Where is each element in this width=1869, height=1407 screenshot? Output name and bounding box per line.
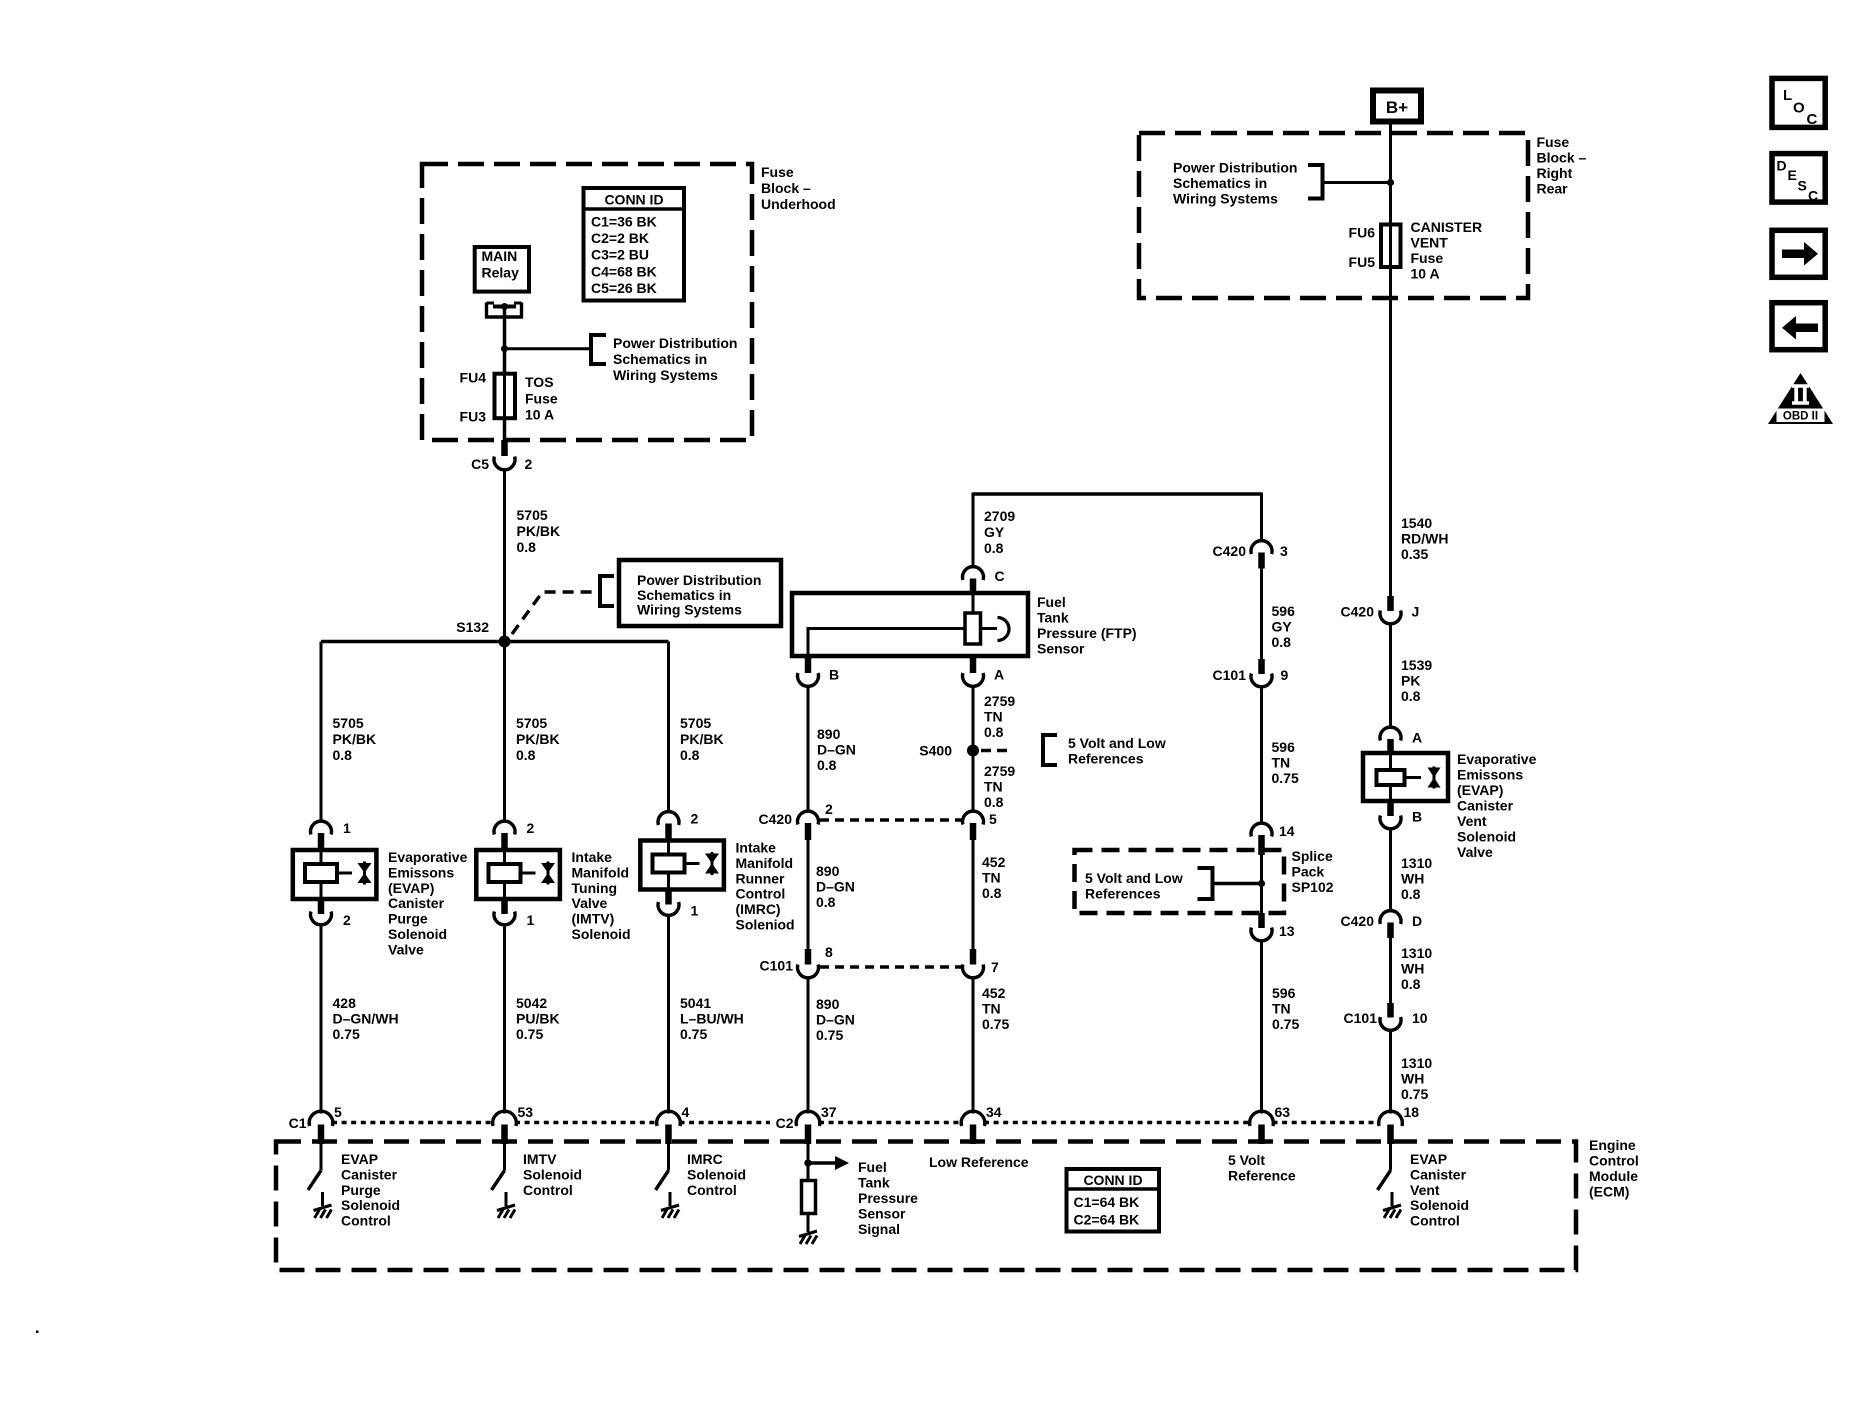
splice S132 junction dot bbox=[499, 636, 511, 648]
svg-text:FU4: FU4 bbox=[460, 370, 487, 386]
svg-text:(ECM): (ECM) bbox=[1589, 1184, 1629, 1200]
connector C5 pin 2 bbox=[501, 440, 508, 456]
svg-text:4: 4 bbox=[682, 1104, 690, 1120]
svg-text:2759: 2759 bbox=[984, 763, 1015, 779]
bracket for power distribution box (S132) bbox=[600, 576, 614, 606]
connector pin 13 (splice pack) bbox=[1258, 913, 1265, 928]
fuse block - underhood dashed enclosure bbox=[422, 164, 752, 440]
svg-text:Schematics in: Schematics in bbox=[637, 587, 731, 603]
svg-text:Solenoid: Solenoid bbox=[1410, 1197, 1469, 1213]
svg-text:890: 890 bbox=[817, 726, 841, 742]
solenoid L1 EVAP canister purge valve symbol bbox=[363, 862, 366, 885]
svg-text:Fuse: Fuse bbox=[1411, 250, 1444, 266]
svg-text:GY: GY bbox=[984, 524, 1005, 540]
svg-text:0.8: 0.8 bbox=[333, 747, 353, 763]
ground (EVAP purge control) bbox=[314, 1205, 332, 1211]
icon forward arrow button bbox=[1772, 230, 1825, 277]
svg-text:Evaporative: Evaporative bbox=[388, 849, 468, 865]
connector pin A of FTP sensor bbox=[970, 656, 977, 673]
svg-text:D–GN: D–GN bbox=[816, 1012, 855, 1028]
svg-text:C1=64 BK: C1=64 BK bbox=[1074, 1194, 1140, 1210]
svg-text:C2=64 BK: C2=64 BK bbox=[1074, 1212, 1140, 1228]
connector pin 1 at solenoid L2 IMTV bottom bbox=[501, 899, 508, 914]
svg-text:(EVAP): (EVAP) bbox=[388, 880, 434, 896]
svg-text:C4=68 BK: C4=68 BK bbox=[591, 263, 657, 279]
svg-text:Manifold: Manifold bbox=[736, 855, 794, 871]
ECM FTP signal input network bbox=[807, 1144, 810, 1181]
svg-text:1539: 1539 bbox=[1401, 657, 1432, 673]
wire S132 to solenoid L1 EVAP canister purge bbox=[320, 642, 323, 823]
svg-text:Tank: Tank bbox=[1037, 610, 1069, 626]
dashed leader from S400 bbox=[981, 749, 1010, 752]
connector pin 2 at solenoid L3 IMRC top bbox=[658, 812, 679, 825]
splice S132 bus wire bbox=[321, 640, 669, 644]
svg-text:Valve: Valve bbox=[388, 941, 424, 957]
ground (EVAP vent control) bbox=[1383, 1205, 1401, 1211]
svg-text:Power Distribution: Power Distribution bbox=[1173, 160, 1297, 176]
wire C101-7 to ECM pin 34 bbox=[972, 977, 975, 1114]
svg-text:2: 2 bbox=[527, 820, 535, 836]
svg-text:Pressure: Pressure bbox=[858, 1190, 918, 1206]
ECM connector pin 63 bbox=[1250, 1111, 1274, 1126]
svg-text:0.8: 0.8 bbox=[1401, 688, 1421, 704]
fuel tank pressure sensor box bbox=[792, 593, 1028, 656]
svg-text:C3=2 BU: C3=2 BU bbox=[591, 247, 649, 263]
connector C420 pin 2 bbox=[798, 811, 819, 824]
svg-text:1310: 1310 bbox=[1401, 945, 1432, 961]
connector pin 1 at solenoid L3 IMRC bottom bbox=[665, 890, 672, 905]
icon DESC button bbox=[1772, 154, 1825, 203]
svg-text:Evaporative: Evaporative bbox=[1457, 751, 1537, 767]
svg-text:Intake: Intake bbox=[572, 849, 613, 865]
SP102 connection with junction dot bbox=[1213, 882, 1262, 885]
svg-text:13: 13 bbox=[1279, 923, 1295, 939]
svg-text:WH: WH bbox=[1401, 961, 1424, 977]
svg-text:C2: C2 bbox=[776, 1115, 794, 1131]
svg-text:TOS: TOS bbox=[525, 374, 554, 390]
svg-text:C101: C101 bbox=[1213, 667, 1247, 683]
connector pin B of FTP sensor bbox=[805, 656, 812, 673]
svg-text:5 Volt: 5 Volt bbox=[1228, 1152, 1265, 1168]
wire C420-5 to C101-7 bbox=[972, 840, 975, 949]
wire 596 TN to splice pack bbox=[1260, 686, 1263, 824]
wire 890 D-GN from B bbox=[807, 686, 810, 813]
svg-text:2: 2 bbox=[525, 456, 533, 472]
svg-text:5705: 5705 bbox=[333, 715, 364, 731]
FTP potentiometer bbox=[965, 613, 981, 644]
solenoid L3 IMRC box bbox=[640, 841, 724, 890]
ground (FTP signal) bbox=[799, 1231, 817, 1237]
OBD II label plate bbox=[1777, 409, 1825, 423]
svg-text:0.75: 0.75 bbox=[1401, 1086, 1428, 1102]
svg-text:Emissons: Emissons bbox=[1457, 767, 1523, 783]
vent solenoid valve symbol bbox=[1433, 767, 1436, 789]
svg-text:IMRC: IMRC bbox=[687, 1151, 723, 1167]
solenoid L1 EVAP canister purge coil bbox=[305, 864, 337, 882]
svg-text:C420: C420 bbox=[1213, 543, 1247, 559]
svg-text:14: 14 bbox=[1279, 823, 1295, 839]
OBD II pillar glyph bbox=[1792, 385, 1809, 405]
svg-text:37: 37 bbox=[821, 1104, 837, 1120]
svg-text:C5=26 BK: C5=26 BK bbox=[591, 280, 657, 296]
ECM connector pin 4 bbox=[657, 1111, 681, 1126]
svg-text:CONN ID: CONN ID bbox=[1083, 1172, 1142, 1188]
ECM driver switch (IMRC control) bbox=[667, 1144, 670, 1171]
svg-text:L: L bbox=[1783, 87, 1792, 104]
svg-text:PU/BK: PU/BK bbox=[516, 1011, 560, 1027]
svg-text:Power Distribution: Power Distribution bbox=[637, 572, 761, 588]
svg-text:0.8: 0.8 bbox=[517, 539, 537, 555]
relay K: MAIN Relay box bbox=[475, 247, 529, 292]
svg-text:8: 8 bbox=[825, 944, 833, 960]
svg-text:C1: C1 bbox=[289, 1115, 307, 1131]
MAIN relay contact symbol bbox=[487, 303, 522, 318]
svg-text:Vent: Vent bbox=[1457, 813, 1487, 829]
svg-text:WH: WH bbox=[1401, 1071, 1424, 1087]
svg-text:428: 428 bbox=[333, 995, 357, 1011]
svg-text:0.35: 0.35 bbox=[1401, 546, 1428, 562]
svg-text:Manifold: Manifold bbox=[572, 864, 630, 880]
svg-text:2: 2 bbox=[691, 811, 699, 827]
ECM connector pin 18 bbox=[1379, 1111, 1403, 1126]
svg-text:596: 596 bbox=[1272, 603, 1296, 619]
svg-text:MAIN: MAIN bbox=[482, 248, 518, 264]
bracket for power distribution note (underhood) bbox=[591, 335, 606, 364]
svg-text:GY: GY bbox=[1272, 619, 1293, 635]
svg-text:5705: 5705 bbox=[517, 507, 548, 523]
svg-text:S132: S132 bbox=[456, 619, 489, 635]
svg-text:Engine: Engine bbox=[1589, 1137, 1636, 1153]
svg-text:Emissons: Emissons bbox=[388, 864, 454, 880]
CONN ID table (ECM) bbox=[1067, 1169, 1160, 1232]
svg-text:0.8: 0.8 bbox=[516, 747, 536, 763]
svg-text:2709: 2709 bbox=[984, 508, 1015, 524]
svg-text:Right: Right bbox=[1537, 165, 1573, 181]
svg-text:Canister: Canister bbox=[388, 895, 445, 911]
ECM driver switch (EVAP vent control) bbox=[1389, 1144, 1392, 1171]
svg-text:Runner: Runner bbox=[736, 870, 786, 886]
svg-text:Low Reference: Low Reference bbox=[929, 1154, 1029, 1170]
svg-text:0.8: 0.8 bbox=[1401, 886, 1421, 902]
svg-text:References: References bbox=[1068, 751, 1144, 767]
svg-text:5705: 5705 bbox=[516, 715, 547, 731]
svg-text:Solenoid: Solenoid bbox=[388, 926, 447, 942]
bracket 5 Volt and Low References (S400) bbox=[1043, 735, 1057, 765]
fuse FU6/FU5 CANISTER VENT Fuse 10A bbox=[1381, 225, 1401, 268]
svg-text:Pack: Pack bbox=[1292, 863, 1325, 879]
svg-text:Canister: Canister bbox=[341, 1166, 398, 1182]
svg-text:Canister: Canister bbox=[1410, 1166, 1467, 1182]
connector pin A (vent solenoid) bbox=[1380, 727, 1401, 740]
svg-text:0.75: 0.75 bbox=[333, 1026, 360, 1042]
svg-text:C2=2 BK: C2=2 BK bbox=[591, 230, 649, 246]
connector C420 pin J bbox=[1387, 596, 1394, 611]
wire solenoid L1 EVAP canister purge to ECM bbox=[320, 924, 323, 1114]
ground (IMRC control) bbox=[661, 1205, 679, 1211]
svg-text:Wiring Systems: Wiring Systems bbox=[1173, 191, 1278, 207]
wire FU3 to C5 bbox=[503, 418, 507, 441]
svg-text:0.8: 0.8 bbox=[984, 540, 1004, 556]
connector C101 pin 7 bbox=[970, 949, 977, 965]
ECM connector pin row dotted link bbox=[332, 1121, 493, 1124]
wire 1310 WH (upper) bbox=[1389, 828, 1392, 912]
svg-text:0.8: 0.8 bbox=[1272, 634, 1292, 650]
svg-text:Underhood: Underhood bbox=[761, 196, 836, 212]
svg-text:TN: TN bbox=[1272, 755, 1291, 771]
svg-text:Schematics in: Schematics in bbox=[1173, 175, 1267, 191]
battery terminal B+ bbox=[1373, 91, 1421, 122]
connection to B+ feed with junction dot bbox=[1323, 181, 1391, 184]
icon back arrow button bbox=[1772, 303, 1825, 350]
svg-text:SP102: SP102 bbox=[1292, 879, 1334, 895]
svg-text:C420: C420 bbox=[759, 811, 793, 827]
svg-text:5705: 5705 bbox=[680, 715, 711, 731]
svg-text:Fuel: Fuel bbox=[1037, 594, 1066, 610]
svg-text:C420: C420 bbox=[1341, 604, 1375, 620]
svg-text:0.75: 0.75 bbox=[982, 1016, 1009, 1032]
svg-text:B+: B+ bbox=[1386, 98, 1408, 117]
svg-text:Control: Control bbox=[736, 886, 786, 902]
svg-text:FU5: FU5 bbox=[1349, 254, 1376, 270]
svg-text:5 Volt and Low: 5 Volt and Low bbox=[1068, 735, 1166, 751]
svg-text:596: 596 bbox=[1272, 739, 1296, 755]
connector pin 14 (splice pack) bbox=[1251, 823, 1272, 836]
FTP signal arrow bbox=[808, 1161, 835, 1164]
svg-text:Fuse: Fuse bbox=[525, 390, 558, 406]
svg-text:63: 63 bbox=[1275, 1104, 1291, 1120]
svg-text:1310: 1310 bbox=[1401, 1055, 1432, 1071]
connector pin 2 at solenoid L1 EVAP canister purge bottom bbox=[318, 899, 325, 914]
svg-text:0.8: 0.8 bbox=[984, 724, 1004, 740]
svg-text:10 A: 10 A bbox=[1411, 266, 1440, 282]
svg-text:D–GN/WH: D–GN/WH bbox=[333, 1011, 399, 1027]
wire 2759 TN below S400 bbox=[972, 757, 975, 813]
solenoid L2 IMTV valve symbol bbox=[547, 862, 550, 885]
svg-text:Control: Control bbox=[523, 1182, 573, 1198]
svg-text:0.8: 0.8 bbox=[680, 747, 700, 763]
solenoid L2 IMTV coil bbox=[489, 864, 521, 882]
connector C420 pin 3 bbox=[1251, 541, 1272, 554]
svg-text:Solenoid: Solenoid bbox=[572, 926, 631, 942]
connector C101 pin 8 bbox=[805, 949, 812, 965]
icon OBD II warning triangle bbox=[1768, 373, 1833, 424]
svg-text:Reference: Reference bbox=[1228, 1168, 1296, 1184]
svg-text:Module: Module bbox=[1589, 1168, 1638, 1184]
svg-text:1540: 1540 bbox=[1401, 515, 1432, 531]
svg-text:0.75: 0.75 bbox=[1272, 1016, 1299, 1032]
splice S400 bbox=[967, 745, 979, 757]
ECM driver switch (EVAP purge control) bbox=[320, 1144, 323, 1171]
svg-text:TN: TN bbox=[984, 779, 1003, 795]
svg-text:Block –: Block – bbox=[1537, 150, 1587, 166]
FTP wiper bbox=[981, 627, 998, 630]
svg-text:0.8: 0.8 bbox=[1401, 976, 1421, 992]
solenoid L1 EVAP canister purge box bbox=[293, 850, 377, 899]
svg-text:S: S bbox=[1798, 178, 1807, 194]
svg-text:J: J bbox=[1412, 604, 1420, 620]
svg-text:3: 3 bbox=[1280, 543, 1288, 559]
svg-text:0.8: 0.8 bbox=[816, 894, 836, 910]
bracket for power distribution note (right rear) bbox=[1308, 165, 1323, 199]
solenoid L3 IMRC coil bbox=[653, 855, 685, 873]
wire 1539 PK bbox=[1389, 623, 1392, 728]
svg-text:Fuse: Fuse bbox=[1537, 134, 1570, 150]
svg-text:Power Distribution: Power Distribution bbox=[613, 335, 737, 351]
ECM driver switch (IMTV control) bbox=[503, 1144, 506, 1171]
svg-text:PK/BK: PK/BK bbox=[517, 523, 561, 539]
connector C101 pin 9 bbox=[1258, 659, 1265, 674]
svg-text:Pressure (FTP): Pressure (FTP) bbox=[1037, 625, 1137, 641]
wire relay to fuse FU4 bbox=[503, 307, 507, 374]
svg-text:L–BU/WH: L–BU/WH bbox=[680, 1011, 744, 1027]
svg-text:5041: 5041 bbox=[680, 995, 711, 1011]
svg-text:1310: 1310 bbox=[1401, 855, 1432, 871]
svg-text:C5: C5 bbox=[471, 456, 489, 472]
svg-text:PK/BK: PK/BK bbox=[333, 731, 377, 747]
svg-text:1: 1 bbox=[691, 903, 699, 919]
svg-text:452: 452 bbox=[982, 854, 1006, 870]
svg-text:(IMRC): (IMRC) bbox=[736, 901, 781, 917]
splice pack SP102 dashed enclosure bbox=[1075, 850, 1285, 913]
wire solenoid L3 IMRC to ECM bbox=[667, 915, 670, 1114]
svg-text:Control: Control bbox=[341, 1213, 391, 1229]
svg-text:0.75: 0.75 bbox=[1272, 770, 1299, 786]
svg-text:452: 452 bbox=[982, 985, 1006, 1001]
ECM connector pin 53 bbox=[493, 1111, 517, 1126]
wire S132 to solenoid L3 IMRC bbox=[667, 642, 670, 813]
svg-text:EVAP: EVAP bbox=[1410, 1151, 1447, 1167]
wire 596 GY bbox=[1260, 569, 1263, 660]
svg-text:890: 890 bbox=[816, 863, 840, 879]
svg-text:B: B bbox=[1412, 809, 1422, 825]
svg-text:References: References bbox=[1085, 886, 1161, 902]
svg-text:Solenoid: Solenoid bbox=[523, 1166, 582, 1182]
svg-text:Vent: Vent bbox=[1410, 1182, 1440, 1198]
svg-text:53: 53 bbox=[518, 1104, 534, 1120]
icon LOC button bbox=[1772, 78, 1825, 127]
svg-text:0.8: 0.8 bbox=[984, 794, 1004, 810]
connector pin B (vent solenoid) bbox=[1387, 801, 1394, 816]
svg-text:D–GN: D–GN bbox=[816, 879, 855, 895]
svg-text:C101: C101 bbox=[760, 958, 794, 974]
svg-text:WH: WH bbox=[1401, 871, 1424, 887]
svg-text:S400: S400 bbox=[919, 743, 952, 759]
wire FTP C to 5V reference (top run) bbox=[973, 492, 1262, 496]
wire 596 TN to ECM pin 63 bbox=[1260, 940, 1263, 1114]
svg-text:C: C bbox=[1807, 111, 1818, 128]
wire C420-2 to C101-8 bbox=[807, 840, 810, 949]
svg-text:FU6: FU6 bbox=[1349, 225, 1376, 241]
svg-text:0.75: 0.75 bbox=[816, 1027, 843, 1043]
solenoid L3 IMRC valve symbol bbox=[711, 852, 714, 875]
svg-text:18: 18 bbox=[1404, 1104, 1420, 1120]
svg-text:Canister: Canister bbox=[1457, 798, 1514, 814]
svg-text:TN: TN bbox=[982, 870, 1001, 886]
svg-text:Valve: Valve bbox=[572, 895, 608, 911]
wire solenoid L2 IMTV to ECM bbox=[503, 924, 506, 1114]
wire 1310 WH to ECM pin 18 bbox=[1389, 1030, 1392, 1114]
svg-text:Rear: Rear bbox=[1537, 181, 1569, 197]
svg-text:PK/BK: PK/BK bbox=[516, 731, 560, 747]
svg-text:D: D bbox=[1412, 913, 1422, 929]
svg-text:Signal: Signal bbox=[858, 1221, 900, 1237]
svg-text:TN: TN bbox=[984, 709, 1003, 725]
resistor (FTP signal pull-up) bbox=[802, 1181, 816, 1214]
svg-text:Control: Control bbox=[1589, 1153, 1639, 1169]
wire C101-8 to ECM pin 37 bbox=[807, 977, 810, 1114]
svg-text:D: D bbox=[1777, 158, 1787, 174]
svg-text:Sensor: Sensor bbox=[1037, 641, 1085, 657]
svg-text:TN: TN bbox=[1272, 1001, 1291, 1017]
svg-text:CANISTER: CANISTER bbox=[1411, 219, 1483, 235]
svg-text:Solenoid: Solenoid bbox=[687, 1166, 746, 1182]
svg-text:Intake: Intake bbox=[736, 840, 777, 856]
svg-text:5: 5 bbox=[334, 1104, 342, 1120]
svg-text:Fuse: Fuse bbox=[761, 164, 794, 180]
connector pin C of FTP sensor bbox=[963, 567, 984, 580]
solenoid L2 IMTV box bbox=[476, 850, 560, 899]
FTP internal wire to pin B bbox=[808, 629, 965, 657]
svg-text:1: 1 bbox=[527, 912, 535, 928]
svg-text:0.8: 0.8 bbox=[817, 757, 837, 773]
svg-text:2759: 2759 bbox=[984, 693, 1015, 709]
engine control module dashed enclosure bbox=[276, 1142, 1576, 1271]
svg-text:C: C bbox=[1808, 188, 1818, 204]
svg-text:10: 10 bbox=[1412, 1010, 1428, 1026]
svg-text:PK/BK: PK/BK bbox=[680, 731, 724, 747]
svg-text:9: 9 bbox=[1281, 667, 1289, 683]
svg-text:E: E bbox=[1788, 167, 1797, 183]
connector C420 pin D bbox=[1380, 911, 1401, 924]
vent solenoid coil bbox=[1377, 770, 1405, 785]
svg-text:1: 1 bbox=[343, 820, 351, 836]
svg-text:Tank: Tank bbox=[858, 1175, 890, 1191]
svg-text:Purge: Purge bbox=[341, 1182, 381, 1198]
svg-text:O: O bbox=[1793, 100, 1805, 117]
fuse block - right rear dashed enclosure bbox=[1139, 133, 1528, 298]
svg-text:Sensor: Sensor bbox=[858, 1206, 906, 1222]
svg-text:TN: TN bbox=[982, 1001, 1001, 1017]
ECM connector pin 5 (C1) bbox=[309, 1111, 333, 1126]
CONN ID table (underhood) bbox=[584, 188, 685, 301]
svg-text:(IMTV): (IMTV) bbox=[572, 911, 615, 927]
svg-text:Control: Control bbox=[1410, 1213, 1460, 1229]
svg-text:34: 34 bbox=[986, 1104, 1002, 1120]
connector pin 2 at solenoid L2 IMTV top bbox=[494, 821, 515, 834]
svg-text:Solenoid: Solenoid bbox=[1457, 829, 1516, 845]
svg-text:890: 890 bbox=[816, 996, 840, 1012]
fuse FU4/FU3 TOS Fuse 10A bbox=[495, 374, 516, 419]
svg-text:10 A: 10 A bbox=[525, 407, 554, 423]
bracket 5 Volt and Low References (SP102) bbox=[1198, 868, 1213, 899]
svg-text:B: B bbox=[829, 667, 839, 683]
svg-text:Soleniod: Soleniod bbox=[736, 917, 795, 933]
svg-text:5042: 5042 bbox=[516, 995, 547, 1011]
dashed leader from S132 to power distribution box bbox=[512, 592, 598, 634]
solenoid EVAP canister vent valve box bbox=[1363, 753, 1448, 801]
svg-text:Block –: Block – bbox=[761, 180, 811, 196]
svg-text:Relay: Relay bbox=[482, 265, 520, 281]
svg-text:Splice: Splice bbox=[1292, 848, 1333, 864]
svg-text:OBD II: OBD II bbox=[1783, 411, 1818, 423]
connector C101 pin 10 bbox=[1387, 1003, 1394, 1018]
svg-text:Tuning: Tuning bbox=[572, 880, 618, 896]
svg-text:C420: C420 bbox=[1341, 913, 1375, 929]
dashed connector link C420 (2-5) bbox=[820, 818, 961, 821]
svg-text:5 Volt and Low: 5 Volt and Low bbox=[1085, 870, 1183, 886]
svg-text:PK: PK bbox=[1401, 673, 1420, 689]
svg-text:596: 596 bbox=[1272, 985, 1296, 1001]
